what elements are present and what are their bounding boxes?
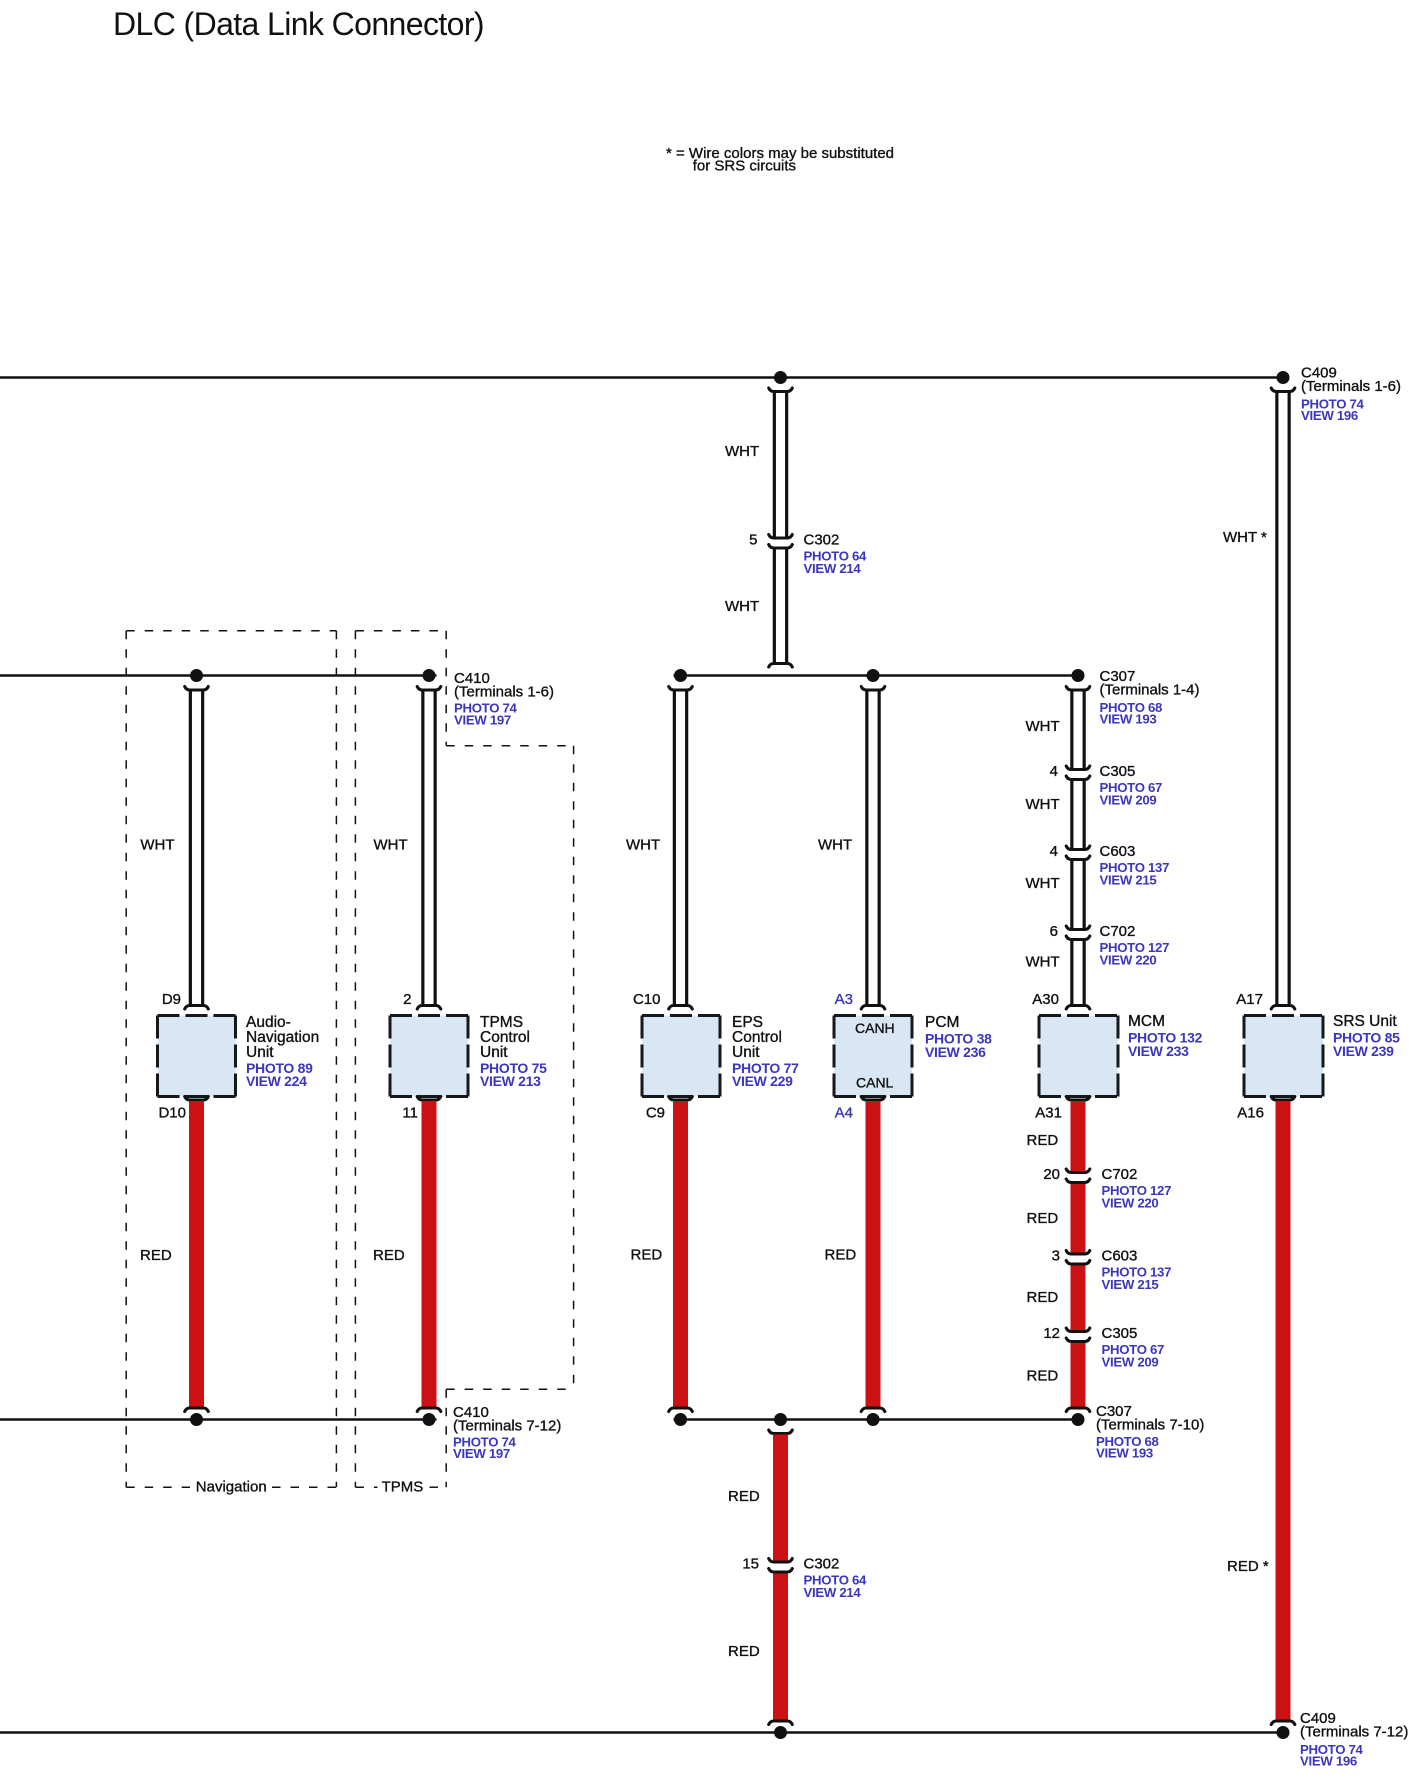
svg-text:RED: RED bbox=[631, 1247, 663, 1264]
label C603 bbox=[1100, 843, 1170, 888]
svg-text:5: 5 bbox=[749, 532, 757, 549]
dashed enclosure TPMS bbox=[355, 631, 573, 1487]
svg-text:TPMS: TPMS bbox=[382, 1479, 424, 1496]
component box Audio-Navigation Unit bbox=[158, 1016, 236, 1097]
junction dot bus2 at EPS branch bbox=[674, 669, 687, 682]
svg-text:RED: RED bbox=[373, 1247, 405, 1264]
svg-text:WHT: WHT bbox=[140, 837, 174, 854]
svg-text:WHT: WHT bbox=[374, 837, 408, 854]
note: wire color substitution bbox=[666, 145, 894, 175]
svg-text:C702: C702 bbox=[1100, 923, 1136, 940]
svg-text:RED: RED bbox=[728, 1643, 760, 1660]
svg-text:CANH: CANH bbox=[855, 1020, 895, 1036]
connector C302 cavity 15 lower half bbox=[769, 1569, 793, 1573]
svg-text:VIEW 197: VIEW 197 bbox=[453, 1446, 510, 1461]
svg-text:A17: A17 bbox=[1236, 991, 1263, 1008]
connector terminal at top bus C302 branch bbox=[769, 388, 793, 392]
label C302 bottom bbox=[804, 1556, 868, 1601]
svg-text:WHT: WHT bbox=[725, 443, 759, 460]
svg-text:VIEW 196: VIEW 196 bbox=[1301, 408, 1358, 423]
svg-text:SRS Unit: SRS Unit bbox=[1333, 1013, 1397, 1030]
junction dot bottom bus at C302 red bbox=[774, 1726, 787, 1739]
label SRS Unit bbox=[1333, 1013, 1400, 1059]
svg-text:VIEW 197: VIEW 197 bbox=[454, 713, 511, 728]
svg-text:VIEW 193: VIEW 193 bbox=[1096, 1446, 1153, 1461]
junction dot bus3 at C302 red branch bbox=[774, 1413, 787, 1426]
connector terminal D9 at box bbox=[185, 1006, 209, 1010]
svg-text:PCM: PCM bbox=[925, 1014, 959, 1031]
connector terminal A17 at box bbox=[1271, 1006, 1295, 1010]
wire RED bus3 down to C302 cavity 15 bbox=[769, 1430, 793, 1561]
svg-text:C702: C702 bbox=[1102, 1166, 1138, 1183]
wire RED C702 to C603 bbox=[1071, 1184, 1086, 1253]
svg-text:VIEW 236: VIEW 236 bbox=[925, 1044, 986, 1060]
wire RED pcm to bus3 bbox=[861, 1097, 885, 1412]
svg-text:Unit: Unit bbox=[732, 1044, 760, 1061]
svg-text:A4: A4 bbox=[835, 1105, 853, 1122]
svg-text:(Terminals 1-6): (Terminals 1-6) bbox=[1301, 378, 1401, 395]
connector C702 cavity 20 lower half bbox=[1066, 1179, 1090, 1183]
svg-text:VIEW 196: VIEW 196 bbox=[1300, 1754, 1357, 1769]
wire WHT C603 to C702 bbox=[1072, 861, 1084, 928]
label C409 terminals 7-12 bbox=[1300, 1710, 1408, 1769]
connector C302 cavity 5 upper half bbox=[769, 535, 793, 539]
wire RED C603 to C305 bbox=[1071, 1266, 1086, 1331]
svg-text:(Terminals 7-12): (Terminals 7-12) bbox=[453, 1418, 561, 1435]
svg-text:3: 3 bbox=[1052, 1248, 1060, 1265]
svg-text:VIEW 209: VIEW 209 bbox=[1100, 793, 1157, 808]
connector C305 cavity 12 lower half bbox=[1066, 1338, 1090, 1342]
connector terminal into bus2 bbox=[769, 664, 793, 668]
label C305 red bbox=[1102, 1325, 1165, 1370]
svg-text:Unit: Unit bbox=[246, 1044, 274, 1061]
svg-text:VIEW 193: VIEW 193 bbox=[1100, 712, 1157, 727]
svg-text:A31: A31 bbox=[1035, 1105, 1062, 1122]
svg-text:A3: A3 bbox=[835, 991, 853, 1008]
wire WHT bus2 to TPMS control unit bbox=[423, 689, 435, 1005]
connector terminal below bus2 dot (eps) bbox=[669, 687, 693, 691]
svg-text:C305: C305 bbox=[1102, 1325, 1138, 1342]
connector C302 cavity 5 lower half bbox=[769, 545, 793, 549]
wire WHT bus2 to PCM bbox=[867, 689, 879, 1005]
component box TPMS Control Unit bbox=[390, 1016, 468, 1097]
component box MCM bbox=[1039, 1016, 1118, 1097]
svg-text:VIEW 214: VIEW 214 bbox=[804, 561, 862, 576]
junction dot top bus at C409 bbox=[1277, 371, 1290, 384]
svg-text:VIEW 213: VIEW 213 bbox=[480, 1073, 541, 1089]
svg-text:20: 20 bbox=[1043, 1166, 1060, 1183]
svg-text:WHT: WHT bbox=[1026, 875, 1060, 892]
wire RED tpms control unit to bus3 bbox=[417, 1097, 441, 1412]
svg-text:(Terminals 7-10): (Terminals 7-10) bbox=[1096, 1417, 1204, 1434]
connector terminal 2 at box bbox=[417, 1006, 441, 1010]
bus wire third (to C307 terminals 7-10) bbox=[0, 1418, 437, 1420]
junction dot bus3 at navigation red bbox=[190, 1413, 203, 1426]
bus wire top (to C409 terminals 1-6) bbox=[0, 376, 1283, 378]
svg-text:RED: RED bbox=[728, 1488, 760, 1505]
connector C702 cavity 20 upper half bbox=[1066, 1169, 1090, 1173]
svg-text:DLC (Data Link Connector): DLC (Data Link Connector) bbox=[113, 6, 484, 42]
connector C305 cavity 12 upper half bbox=[1066, 1328, 1090, 1332]
svg-text:WHT: WHT bbox=[1026, 718, 1060, 735]
svg-text:MCM: MCM bbox=[1128, 1013, 1165, 1030]
svg-text:2: 2 bbox=[403, 991, 411, 1008]
connector terminal below top bus dot (srs) bbox=[1271, 388, 1295, 392]
label C603 red bbox=[1102, 1248, 1172, 1293]
bus wire second (to C307 terminals 1-4) bbox=[0, 674, 437, 676]
bus wire bottom (to C409 terminals 7-12) bbox=[0, 1731, 1283, 1733]
connector C603 cavity 3 lower half bbox=[1066, 1261, 1090, 1265]
connector C603 cavity 4 upper half bbox=[1066, 846, 1090, 850]
svg-text:Unit: Unit bbox=[480, 1044, 508, 1061]
junction dot top bus at C302 branch bbox=[774, 371, 787, 384]
label C307 terminals 7-10 bbox=[1096, 1403, 1204, 1461]
wire WHT from C302 down to bus2 bbox=[774, 550, 786, 665]
svg-text:RED: RED bbox=[1027, 1210, 1059, 1227]
component box SRS Unit bbox=[1244, 1016, 1323, 1097]
svg-text:RED: RED bbox=[1027, 1289, 1059, 1306]
wire RED mcm to C702 bbox=[1066, 1097, 1090, 1172]
label EPS Control Unit bbox=[732, 1014, 799, 1089]
svg-text:WHT: WHT bbox=[1026, 796, 1060, 813]
junction dot bus3 at C410 terminals 7-12 bbox=[423, 1413, 436, 1426]
wire RED C305 to bus3 bbox=[1066, 1343, 1090, 1412]
junction dot bus2 at C410 terminals 1-6 (navigation) bbox=[190, 669, 203, 682]
junction dot bus2 at C307 terminals 1-4 bbox=[1072, 669, 1085, 682]
wire RED C302 to bottom bus bbox=[769, 1574, 793, 1725]
svg-text:12: 12 bbox=[1043, 1325, 1060, 1342]
svg-text:4: 4 bbox=[1050, 763, 1058, 780]
svg-text:WHT: WHT bbox=[1026, 954, 1060, 971]
wire WHT top bus to SRS unit bbox=[1277, 390, 1289, 1005]
connector terminal below bus2 dot (navigation) bbox=[185, 687, 209, 691]
svg-text:4: 4 bbox=[1050, 843, 1058, 860]
svg-text:VIEW 215: VIEW 215 bbox=[1102, 1277, 1159, 1292]
connector terminal A30 at box bbox=[1066, 1006, 1090, 1010]
connector C603 cavity 3 upper half bbox=[1066, 1251, 1090, 1255]
junction dot bus3 at PCM red bbox=[867, 1413, 880, 1426]
svg-text:WHT: WHT bbox=[818, 837, 852, 854]
svg-text:C10: C10 bbox=[633, 991, 661, 1008]
svg-text:VIEW 224: VIEW 224 bbox=[246, 1073, 307, 1089]
label C702 bbox=[1100, 923, 1170, 968]
wire WHT bus2 to Audio-Navigation unit bbox=[190, 689, 202, 1005]
svg-text:VIEW 229: VIEW 229 bbox=[732, 1073, 793, 1089]
component box EPS Control Unit bbox=[642, 1016, 720, 1097]
wire RED eps control unit to bus3 bbox=[669, 1097, 693, 1412]
label C307 terminals 1-4 bbox=[1100, 668, 1200, 727]
wire WHT bus2 to EPS control unit bbox=[674, 689, 686, 1005]
junction dot bus3 at C307 terminals 7-10 bbox=[1072, 1413, 1085, 1426]
svg-text:for SRS circuits: for SRS circuits bbox=[693, 158, 796, 175]
label MCM bbox=[1128, 1013, 1203, 1059]
svg-text:C9: C9 bbox=[646, 1105, 665, 1122]
label Audio-Navigation Unit bbox=[246, 1014, 319, 1089]
svg-text:11: 11 bbox=[402, 1105, 418, 1122]
svg-text:15: 15 bbox=[742, 1556, 759, 1573]
svg-text:RED: RED bbox=[140, 1247, 172, 1264]
connector C702 cavity 6 lower half bbox=[1066, 936, 1090, 940]
svg-text:A30: A30 bbox=[1032, 991, 1059, 1008]
connector C305 cavity 4 upper half bbox=[1066, 766, 1090, 770]
wire WHT bus2 to C305 (mcm chain) bbox=[1072, 689, 1084, 768]
svg-text:RED: RED bbox=[1027, 1132, 1059, 1149]
svg-text:RED *: RED * bbox=[1227, 1558, 1269, 1575]
svg-text:C603: C603 bbox=[1102, 1248, 1138, 1265]
label C410 terminals 1-6 bbox=[454, 670, 554, 728]
svg-text:VIEW 220: VIEW 220 bbox=[1102, 1196, 1159, 1211]
label C702 red bbox=[1102, 1166, 1172, 1211]
svg-text:VIEW 233: VIEW 233 bbox=[1128, 1043, 1189, 1059]
wire WHT from top bus down to C302 cavity 5 bbox=[774, 390, 786, 537]
svg-text:VIEW 220: VIEW 220 bbox=[1100, 953, 1157, 968]
svg-text:A16: A16 bbox=[1237, 1105, 1264, 1122]
connector terminal C10 at box bbox=[669, 1006, 693, 1010]
svg-text:C603: C603 bbox=[1100, 843, 1136, 860]
svg-text:VIEW 215: VIEW 215 bbox=[1100, 873, 1157, 888]
svg-text:RED: RED bbox=[1027, 1368, 1059, 1385]
connector C603 cavity 4 lower half bbox=[1066, 856, 1090, 860]
connector C302 cavity 15 upper half bbox=[769, 1559, 793, 1563]
wire WHT C702 to MCM bbox=[1072, 941, 1084, 1005]
connector C305 cavity 4 lower half bbox=[1066, 776, 1090, 780]
svg-text:RED: RED bbox=[825, 1247, 857, 1264]
svg-text:VIEW 214: VIEW 214 bbox=[804, 1585, 862, 1600]
label PCM bbox=[925, 1014, 992, 1060]
svg-text:WHT *: WHT * bbox=[1223, 529, 1267, 546]
svg-text:VIEW 239: VIEW 239 bbox=[1333, 1043, 1394, 1059]
svg-text:WHT: WHT bbox=[626, 837, 660, 854]
svg-text:VIEW 209: VIEW 209 bbox=[1102, 1355, 1159, 1370]
svg-text:Navigation: Navigation bbox=[196, 1479, 267, 1496]
junction dot bus3 at EPS red bbox=[674, 1413, 687, 1426]
label TPMS Control Unit bbox=[480, 1014, 547, 1089]
connector terminal A3 at box bbox=[861, 1006, 885, 1010]
svg-text:C302: C302 bbox=[804, 532, 840, 549]
wire RED audio-navigation unit to bus3 bbox=[185, 1097, 209, 1412]
dashed enclosure Navigation bbox=[126, 631, 336, 1487]
svg-text:CANL: CANL bbox=[856, 1075, 894, 1091]
junction dot bus2 at PCM branch bbox=[867, 669, 880, 682]
svg-text:6: 6 bbox=[1050, 923, 1058, 940]
svg-text:(Terminals 7-12): (Terminals 7-12) bbox=[1300, 1724, 1408, 1741]
svg-text:(Terminals 1-4): (Terminals 1-4) bbox=[1100, 682, 1200, 699]
svg-text:D9: D9 bbox=[162, 991, 181, 1008]
svg-text:WHT: WHT bbox=[725, 598, 759, 615]
wire RED srs unit to bottom bus bbox=[1271, 1097, 1295, 1725]
connector terminal below bus2 dot (pcm) bbox=[861, 687, 885, 691]
svg-text:C305: C305 bbox=[1100, 763, 1136, 780]
svg-text:D10: D10 bbox=[158, 1105, 186, 1122]
junction dot bus2 at C410 (tpms) bbox=[423, 669, 436, 682]
wire WHT C305 to C603 bbox=[1072, 781, 1084, 848]
svg-text:(Terminals 1-6): (Terminals 1-6) bbox=[454, 684, 554, 701]
connector C702 cavity 6 upper half bbox=[1066, 926, 1090, 930]
connector terminal below bus2 dot (tpms) bbox=[417, 687, 441, 691]
junction dot bottom bus at C409 terminals 7-12 bbox=[1277, 1726, 1290, 1739]
svg-text:C302: C302 bbox=[804, 1556, 840, 1573]
connector terminal below bus2 dot (C307 1-4) bbox=[1066, 687, 1090, 691]
label C409 terminals 1-6 bbox=[1301, 365, 1401, 424]
component box PCM bbox=[834, 1016, 912, 1097]
label C305 bbox=[1100, 763, 1163, 808]
label C410 terminals 7-12 bbox=[453, 1404, 561, 1461]
